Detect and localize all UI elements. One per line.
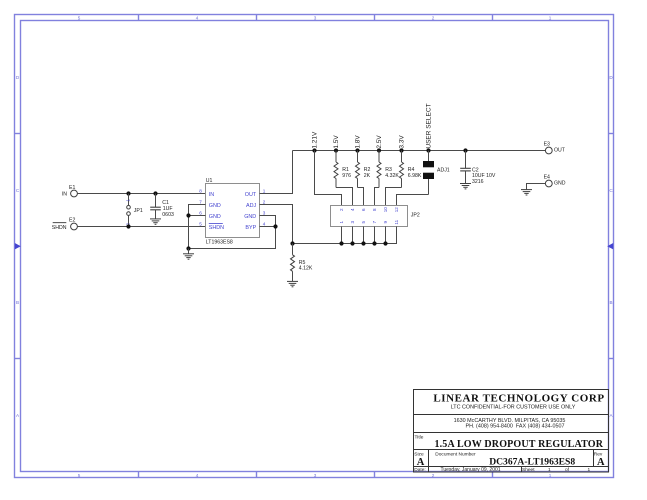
wire R4 to JP2 pin10 [386, 188, 402, 206]
svg-text:E2: E2 [69, 218, 75, 224]
node BYP/ground rail [273, 224, 277, 228]
svg-text:6.98K: 6.98K [408, 173, 422, 179]
resistor R4 [400, 151, 422, 188]
wire JP2 pin7 down [374, 227, 376, 244]
ground E4 [521, 190, 532, 195]
wire R2 to JP2 pin6 [358, 188, 364, 206]
svg-text:JP1: JP1 [134, 208, 143, 214]
svg-text:7: 7 [199, 199, 202, 204]
wire 1.21V to JP2 pin2 [315, 151, 342, 206]
wire OUT bus [293, 150, 546, 152]
svg-text:2K: 2K [364, 173, 371, 179]
svg-text:1: 1 [263, 188, 266, 193]
svg-text:GND: GND [209, 214, 221, 220]
ground below C2 [460, 184, 471, 189]
svg-text:B: B [16, 300, 19, 305]
svg-text:2: 2 [263, 199, 266, 204]
wire JP2 pin5 down [363, 227, 365, 244]
regulator U1 LT1963ES8 [199, 178, 266, 246]
svg-text:4.32K: 4.32K [385, 173, 399, 179]
terminal E1 [62, 185, 78, 198]
svg-text:B: B [609, 300, 612, 305]
node bus C2 [463, 148, 467, 152]
svg-text:7: 7 [372, 220, 377, 223]
svg-text:3: 3 [263, 210, 266, 215]
svg-text:5: 5 [78, 15, 81, 20]
wire E4 to ground [527, 184, 546, 190]
svg-text:OUT: OUT [245, 192, 257, 198]
svg-text:IN: IN [62, 192, 67, 198]
svg-text:1: 1 [588, 467, 591, 473]
capacitor C1 [150, 194, 174, 219]
svg-text:8: 8 [372, 208, 377, 211]
svg-text:LINEAR TECHNOLOGY CORP: LINEAR TECHNOLOGY CORP [433, 393, 604, 405]
svg-text:3.3V: 3.3V [399, 135, 406, 149]
svg-text:2.5V: 2.5V [376, 135, 383, 149]
wire U1 pin6 GND [189, 215, 206, 217]
svg-text:E1: E1 [69, 185, 75, 191]
svg-text:GND: GND [209, 203, 221, 209]
title block [414, 390, 609, 473]
node bus R2 [355, 148, 359, 152]
wire JP2 pin11 down and ADJ rail [293, 227, 397, 244]
svg-text:U1: U1 [206, 178, 213, 184]
terminal E2 [52, 218, 78, 231]
svg-text:5: 5 [78, 473, 81, 478]
svg-text:E3: E3 [544, 141, 550, 147]
svg-text:A: A [417, 457, 425, 468]
node bus 1.21V tap [312, 148, 316, 152]
svg-text:1: 1 [125, 199, 130, 202]
node rail/pin7 [372, 241, 376, 245]
svg-text:Tuesday, January 09, 2001: Tuesday, January 09, 2001 [441, 467, 501, 473]
svg-text:LTC CONFIDENTIAL-FOR CUSTOMER: LTC CONFIDENTIAL-FOR CUSTOMER USE ONLY [451, 404, 576, 410]
svg-text:1.21V: 1.21V [312, 131, 319, 149]
wire U1 pin2 ADJ down [260, 205, 293, 244]
svg-text:1.5A LOW DROPOUT REGULATOR: 1.5A LOW DROPOUT REGULATOR [434, 439, 603, 450]
svg-text:2: 2 [432, 473, 435, 478]
connector JP2 [331, 206, 420, 227]
svg-text:1.8V: 1.8V [355, 135, 362, 149]
svg-text:5: 5 [361, 220, 366, 223]
svg-text:Date:: Date: [414, 467, 425, 473]
ground below C1 [150, 219, 161, 224]
svg-text:3216: 3216 [472, 179, 484, 185]
resistor R3 [377, 151, 399, 188]
wire ground rail to U1 pin3 [189, 216, 276, 249]
svg-text:4: 4 [196, 15, 199, 20]
wire U1 pin7 GND to ground rail [189, 205, 206, 249]
svg-text:OUT: OUT [554, 148, 566, 154]
node rail/pin9 [383, 241, 387, 245]
wire SHDN net [77, 226, 205, 228]
svg-text:6: 6 [361, 208, 366, 211]
svg-text:9: 9 [383, 220, 388, 223]
wire U1 pin1 OUT to bus [260, 151, 293, 194]
svg-text:Title: Title [415, 434, 424, 440]
wire ADJ1 to JP2 pin12 [397, 195, 429, 206]
wire IN net [77, 193, 205, 195]
svg-text:1: 1 [549, 15, 552, 20]
svg-text:of: of [565, 467, 570, 473]
svg-text:3: 3 [314, 473, 317, 478]
svg-text:3: 3 [314, 15, 317, 20]
svg-text:11: 11 [394, 219, 399, 224]
node IN/C1 [153, 191, 157, 195]
node ground rail [186, 246, 190, 250]
svg-text:6: 6 [199, 210, 202, 215]
node rail/R5 [290, 241, 294, 245]
svg-text:4: 4 [263, 221, 266, 226]
svg-text:E4: E4 [544, 174, 550, 180]
wire U1 pin4 BYP [260, 226, 276, 228]
node rail/pin5 [361, 241, 365, 245]
svg-text:BYP: BYP [245, 225, 256, 231]
svg-text:IN: IN [209, 192, 214, 198]
svg-text:4: 4 [196, 473, 199, 478]
svg-text:2: 2 [432, 15, 435, 20]
svg-text:5: 5 [199, 221, 202, 226]
node rail/pin3 [350, 241, 354, 245]
svg-text:SHDN: SHDN [52, 225, 67, 231]
ground below R5 [287, 281, 298, 286]
node bus R3 [377, 148, 381, 152]
svg-text:1: 1 [549, 473, 552, 478]
node SHDN/JP1 [126, 224, 130, 228]
svg-text:4.12K: 4.12K [299, 266, 313, 272]
solder jumper ADJ1 [423, 151, 450, 195]
node bus R4 [399, 148, 403, 152]
svg-text:PH. (408) 954-8400 FAX (408): PH. (408) 954-8400 FAX (408) 434-0507 [466, 423, 565, 429]
svg-text:10: 10 [383, 207, 388, 213]
node IN/JP1 [126, 191, 130, 195]
svg-text:DC367A-LT1963ES8: DC367A-LT1963ES8 [489, 456, 575, 467]
ground below U1 rail [188, 249, 190, 254]
svg-text:12: 12 [394, 207, 399, 213]
wire R1 to JP2 pin4 [336, 188, 353, 206]
node bus R1 [334, 148, 338, 152]
svg-text:4: 4 [350, 208, 355, 211]
jumper JP1 [125, 194, 143, 227]
wire JP2 pin9 down [385, 227, 387, 244]
svg-text:GND: GND [244, 214, 256, 220]
resistor R5 [291, 244, 313, 282]
resistor R2 [356, 151, 371, 188]
wire JP2 pin3 down [352, 227, 354, 244]
svg-text:LT1963ES8: LT1963ES8 [206, 240, 233, 246]
capacitor C2 [460, 151, 496, 185]
svg-text:2: 2 [339, 208, 344, 211]
svg-text:8: 8 [199, 188, 202, 193]
resistor R1 [334, 151, 351, 188]
svg-text:Sheet: Sheet [522, 467, 535, 473]
terminal E3 [544, 141, 566, 154]
svg-text:ADJ1: ADJ1 [437, 168, 450, 174]
node pin6/ground rail [186, 213, 190, 217]
svg-text:1: 1 [548, 467, 551, 473]
svg-text:SHDN: SHDN [209, 225, 224, 231]
node bus ADJ1 [426, 148, 430, 152]
svg-text:ADJ: ADJ [246, 203, 256, 209]
svg-text:1.5V: 1.5V [333, 135, 340, 149]
wire R3 to JP2 pin8 [375, 188, 380, 206]
svg-text:0603: 0603 [162, 212, 174, 218]
node rail/pin1 [339, 241, 343, 245]
svg-text:JP2: JP2 [411, 213, 420, 219]
wire JP2 pin1 down [341, 227, 343, 244]
svg-text:3: 3 [350, 220, 355, 223]
svg-text:1: 1 [339, 220, 344, 223]
svg-text:Document Number: Document Number [435, 452, 476, 458]
terminal E4 [544, 174, 566, 187]
svg-text:A: A [597, 457, 605, 468]
svg-text:GND: GND [554, 181, 566, 187]
svg-text:USER SELECT: USER SELECT [426, 103, 433, 148]
svg-text:976: 976 [342, 173, 351, 179]
